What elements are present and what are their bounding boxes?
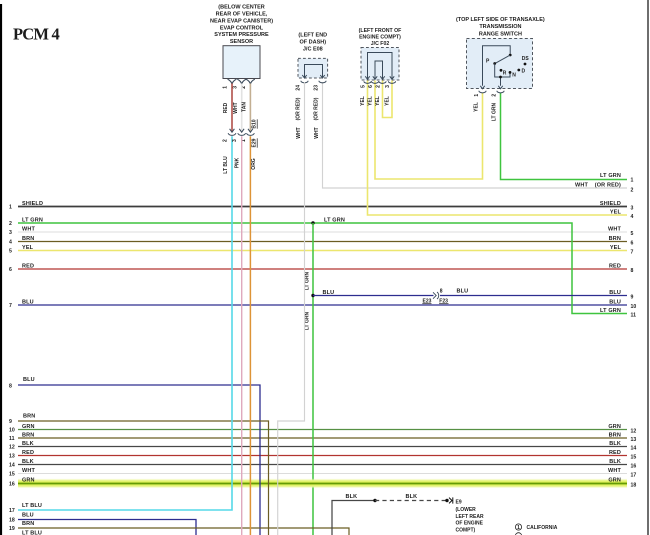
wire BLK dashed to E9	[375, 500, 446, 502]
wire WHT sensor pin 3	[241, 84, 243, 132]
svg-text:7: 7	[9, 303, 12, 309]
wire BLK row pin 12 to pin 14	[18, 446, 627, 448]
sensor pin 1	[228, 79, 237, 84]
svg-text:GRN: GRN	[608, 478, 621, 484]
svg-text:3: 3	[9, 230, 12, 236]
svg-text:YEL: YEL	[368, 96, 374, 106]
wire YEL J/C F02 pin 6 to range switch pin 1	[375, 81, 483, 180]
svg-text:BLU: BLU	[609, 290, 621, 296]
svg-text:2: 2	[491, 94, 497, 97]
svg-text:LT GRN: LT GRN	[22, 217, 43, 223]
svg-text:SYSTEM PRESSURE: SYSTEM PRESSURE	[214, 32, 269, 38]
svg-text:15: 15	[631, 455, 637, 461]
wire WHT (OR RED) J/C E08 pin 23 to pin 2 right	[323, 82, 628, 188]
svg-text:16: 16	[631, 464, 637, 470]
svg-text:ORG: ORG	[251, 158, 257, 170]
svg-text:(OR RED): (OR RED)	[595, 182, 621, 188]
svg-text:BLU: BLU	[22, 512, 34, 518]
svg-text:6: 6	[9, 267, 12, 273]
svg-text:REAR OF VEHICLE,: REAR OF VEHICLE,	[216, 11, 268, 17]
svg-text:WHT: WHT	[575, 182, 588, 188]
svg-text:7: 7	[631, 250, 634, 256]
svg-text:GRN: GRN	[608, 424, 621, 430]
svg-text:LT GRN: LT GRN	[305, 311, 311, 330]
svg-text:5: 5	[360, 85, 366, 88]
J/C F02 internal bus outer	[368, 53, 393, 76]
svg-text:12: 12	[631, 429, 637, 435]
switch contact R	[500, 69, 503, 72]
svg-text:BLU: BLU	[609, 299, 621, 305]
svg-text:2: 2	[222, 139, 228, 142]
svg-text:DS: DS	[522, 56, 530, 62]
svg-text:10: 10	[631, 304, 637, 310]
wire LT BLU row pin 17 to sensor ORG? corner	[18, 136, 232, 510]
svg-text:BLK: BLK	[609, 441, 621, 447]
svg-text:J/C F02: J/C F02	[371, 41, 390, 47]
wire BLK row pin 14 to pin 16	[18, 464, 627, 466]
svg-text:8: 8	[440, 288, 443, 294]
wire BRN row pin 19 turning down	[18, 528, 349, 535]
svg-text:WHT: WHT	[22, 468, 35, 474]
svg-text:PNK: PNK	[234, 157, 240, 168]
svg-text:BLU: BLU	[323, 290, 335, 296]
svg-text:(LEFT FRONT OF: (LEFT FRONT OF	[359, 28, 402, 34]
svg-text:PCM 4: PCM 4	[13, 25, 59, 44]
svg-text:OF DASH): OF DASH)	[300, 40, 327, 46]
junction connector J/C F02	[361, 48, 399, 81]
svg-text:NEAR EVAP CANISTER): NEAR EVAP CANISTER)	[210, 18, 273, 24]
svg-text:1: 1	[474, 94, 480, 97]
footnote 1 CALIFORNIA	[515, 524, 521, 530]
switch wiper pivot	[509, 54, 512, 57]
junction splice dot on LT GRN row	[311, 221, 314, 224]
svg-text:(TOP LEFT SIDE OF TRANSAXLE): (TOP LEFT SIDE OF TRANSAXLE)	[456, 17, 545, 23]
switch contact P	[493, 62, 496, 65]
svg-text:WHT: WHT	[233, 102, 239, 113]
J/C F02 pin 3	[388, 81, 395, 83]
svg-text:1: 1	[631, 178, 634, 184]
svg-text:BLU: BLU	[457, 289, 469, 295]
svg-text:3: 3	[232, 86, 238, 89]
switch contact N	[509, 71, 512, 74]
J/C E08 internal bus	[305, 65, 323, 75]
svg-text:BLK: BLK	[22, 441, 34, 447]
J/C F02 pin 6	[371, 81, 378, 83]
J/C F02 pin 2	[379, 81, 386, 83]
switch P-N common to pin 2	[495, 64, 510, 78]
svg-text:BRN: BRN	[22, 521, 34, 527]
J/C E08 pin 24	[301, 81, 308, 83]
sensor pin 2	[246, 79, 255, 84]
wire RED sensor pin 1	[231, 84, 233, 132]
wire YEL J/C F02 pin 5 to pin 4 right	[368, 81, 628, 216]
wire PNK connector pin 3 down	[241, 136, 243, 535]
svg-text:BRN: BRN	[22, 236, 34, 242]
wire BLU row pin 18 turning down	[18, 520, 196, 535]
svg-text:WHT: WHT	[296, 127, 302, 138]
svg-text:2: 2	[375, 85, 381, 88]
svg-text:E9: E9	[456, 499, 462, 505]
wire ORG connector pin 1 down	[249, 136, 251, 535]
svg-text:LT GRN: LT GRN	[600, 308, 621, 314]
wire RED row pin 13 to pin 15	[18, 455, 627, 457]
wire LT GRN switch pin 2 to pin 1 right	[501, 93, 628, 180]
svg-text:BLK: BLK	[609, 459, 621, 465]
svg-text:19: 19	[9, 526, 15, 532]
svg-text:SHIELD: SHIELD	[22, 201, 43, 207]
svg-text:(OR RED): (OR RED)	[296, 97, 302, 120]
switch wiper feed from pin 1	[483, 46, 511, 86]
svg-text:18: 18	[631, 483, 637, 489]
svg-text:BLK: BLK	[22, 459, 34, 465]
svg-text:ENGINE COMPT): ENGINE COMPT)	[359, 34, 401, 40]
wire BRN row pin 9 turning down	[18, 421, 269, 535]
svg-text:WHT: WHT	[314, 127, 320, 138]
wire LT GRN vertical branch from splice	[312, 223, 314, 535]
svg-text:1: 1	[517, 525, 520, 531]
connector E23 / F23 pin 8	[433, 292, 436, 298]
wire GRN highlighted row pin 16 to pin 18	[18, 479, 627, 489]
switch pin 2	[497, 91, 504, 93]
wire WHT (OR RED) J/C E08 pin 24 down with jog	[278, 82, 305, 535]
svg-text:RED: RED	[223, 102, 229, 113]
EVAP control system pressure sensor	[223, 46, 260, 79]
svg-text:YEL: YEL	[610, 209, 622, 215]
svg-text:14: 14	[9, 463, 15, 469]
svg-text:6: 6	[631, 241, 634, 247]
svg-text:YEL: YEL	[610, 245, 622, 251]
switch contact D	[517, 69, 520, 72]
svg-text:3: 3	[385, 85, 391, 88]
transmission range switch	[467, 39, 533, 89]
svg-text:(LOWER: (LOWER	[456, 507, 477, 513]
svg-text:YEL: YEL	[375, 96, 381, 106]
svg-text:2: 2	[631, 188, 634, 194]
svg-text:3: 3	[232, 139, 238, 142]
svg-text:13: 13	[9, 454, 15, 460]
svg-text:16: 16	[9, 482, 15, 488]
wire GRN row pin 10 to pin 12	[18, 429, 627, 431]
svg-text:17: 17	[631, 473, 637, 479]
svg-text:9: 9	[631, 295, 634, 301]
svg-text:YEL: YEL	[385, 96, 391, 106]
svg-text:BRN: BRN	[22, 432, 34, 438]
J/C F02 internal bus inner	[375, 61, 383, 75]
svg-text:5: 5	[9, 249, 12, 255]
connector B10 / E29	[230, 129, 235, 132]
wire SHIELD row pin 1 to pin 3	[18, 206, 627, 208]
svg-text:RED: RED	[609, 450, 621, 456]
svg-text:13: 13	[631, 437, 637, 443]
svg-text:14: 14	[631, 446, 637, 452]
svg-text:4: 4	[631, 214, 634, 220]
svg-text:YEL: YEL	[474, 102, 480, 112]
svg-text:BRN: BRN	[609, 432, 621, 438]
svg-text:EVAP CONTROL: EVAP CONTROL	[220, 25, 264, 31]
svg-text:10: 10	[9, 428, 15, 434]
wire WHT row pin 15 to pin 17	[18, 473, 627, 475]
svg-text:(LEFT END: (LEFT END	[298, 33, 327, 39]
svg-text:OF ENGINE: OF ENGINE	[456, 521, 484, 527]
svg-text:RED: RED	[22, 263, 34, 269]
svg-text:6: 6	[368, 85, 374, 88]
svg-text:18: 18	[9, 518, 15, 524]
svg-text:SENSOR: SENSOR	[230, 39, 253, 45]
svg-text:BRN: BRN	[23, 413, 35, 419]
J/C F02 pin 5	[364, 81, 371, 83]
wire BRN row pin 11 to pin 13	[18, 437, 627, 439]
svg-text:SHIELD: SHIELD	[600, 201, 621, 207]
wire BLK to splice E9	[332, 501, 375, 535]
svg-text:BLU: BLU	[23, 377, 35, 383]
svg-text:LT GRN: LT GRN	[600, 173, 621, 179]
splice E9	[445, 499, 448, 502]
svg-text:YEL: YEL	[22, 245, 34, 251]
svg-text:(BELOW CENTER: (BELOW CENTER	[218, 4, 264, 10]
switch wiper arm to P	[496, 55, 511, 63]
svg-text:8: 8	[9, 383, 12, 389]
svg-text:TAN: TAN	[242, 102, 248, 112]
svg-text:3: 3	[631, 206, 634, 212]
footnote 2 partial	[515, 533, 521, 535]
svg-text:TRANSMISSION: TRANSMISSION	[479, 24, 521, 30]
svg-text:WHT: WHT	[608, 226, 621, 232]
svg-text:RED: RED	[609, 263, 621, 269]
svg-text:BLU: BLU	[22, 299, 34, 305]
svg-text:BRN: BRN	[609, 236, 621, 242]
switch pin 1	[479, 91, 486, 93]
svg-text:15: 15	[9, 472, 15, 478]
wire TAN sensor pin 2	[249, 84, 251, 132]
svg-text:1: 1	[223, 86, 229, 89]
svg-text:RANGE SWITCH: RANGE SWITCH	[479, 31, 522, 37]
svg-text:LT GRN: LT GRN	[492, 102, 498, 121]
svg-text:N: N	[512, 72, 516, 78]
svg-text:CALIFORNIA: CALIFORNIA	[527, 525, 558, 531]
svg-text:2: 2	[9, 221, 12, 227]
svg-text:LEFT REAR: LEFT REAR	[456, 514, 484, 520]
svg-text:B10: B10	[251, 119, 257, 128]
svg-text:LT BLU: LT BLU	[22, 503, 42, 509]
svg-text:17: 17	[9, 508, 15, 514]
svg-text:COMPT): COMPT)	[456, 528, 476, 534]
svg-text:LT GRN: LT GRN	[305, 271, 311, 290]
wire BRN row pin 4 to pin 6	[18, 241, 627, 243]
wire BLU row splice to pin 9	[313, 295, 434, 297]
splice dot	[373, 499, 376, 502]
svg-text:WHT: WHT	[608, 468, 621, 474]
svg-text:12: 12	[9, 445, 15, 451]
wire LT GRN row pin 2 to pin 11	[18, 223, 627, 314]
svg-text:BLK: BLK	[406, 494, 418, 500]
svg-text:5: 5	[631, 231, 634, 237]
svg-text:R: R	[503, 71, 507, 77]
svg-text:YEL: YEL	[360, 96, 366, 106]
sensor pin 3	[237, 79, 246, 84]
svg-text:WHT: WHT	[22, 226, 35, 232]
svg-text:1: 1	[9, 205, 12, 211]
svg-text:J/C E08: J/C E08	[303, 47, 323, 53]
svg-text:LT BLU: LT BLU	[223, 156, 229, 174]
svg-text:BLK: BLK	[346, 494, 358, 500]
junction connector J/C E08	[298, 58, 328, 78]
wire BLU row pin 8 turning down	[18, 385, 260, 535]
svg-text:GRN: GRN	[22, 424, 35, 430]
J/C E08 pin 23	[319, 81, 326, 83]
svg-text:GRN: GRN	[22, 478, 35, 484]
wire RED row pin 6 to pin 8	[18, 268, 627, 270]
switch contact DS	[524, 63, 527, 66]
svg-text:8: 8	[631, 268, 634, 274]
svg-text:E29: E29	[251, 138, 257, 147]
svg-text:D: D	[522, 69, 526, 75]
junction splice dot LT GRN to BLU row 9	[311, 294, 314, 297]
svg-text:LT BLU: LT BLU	[22, 530, 42, 535]
svg-text:(OR RED): (OR RED)	[314, 97, 320, 120]
wire YEL jumper J/C F02 pin 2 to pin 3	[383, 81, 393, 118]
svg-text:23: 23	[314, 85, 320, 91]
svg-text:24: 24	[296, 85, 302, 91]
wire BLU row pin 7 to pin 10	[18, 304, 627, 306]
svg-text:9: 9	[9, 419, 12, 425]
svg-text:4: 4	[9, 240, 12, 246]
switch junction dot pin 2	[499, 76, 502, 79]
svg-text:11: 11	[9, 436, 15, 442]
svg-text:LT GRN: LT GRN	[324, 217, 345, 223]
svg-text:RED: RED	[22, 450, 34, 456]
svg-text:11: 11	[631, 313, 637, 319]
wire YEL row pin 5 to pin 7	[18, 250, 627, 252]
wire WHT row pin 3 to pin 5	[18, 231, 627, 233]
